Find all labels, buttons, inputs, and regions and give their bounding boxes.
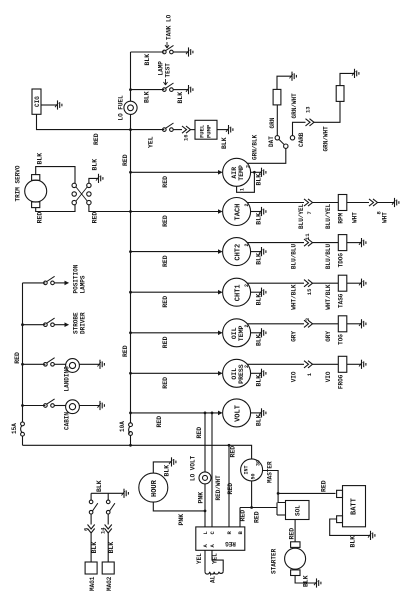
svg-text:FUEL: FUEL [199,124,206,138]
svg-text:TOG: TOG [338,334,345,345]
svg-text:WHT/BLK: WHT/BLK [325,284,332,310]
wire VIO [313,363,339,365]
connector 14 [105,525,112,534]
wire PNK to REG L [204,484,206,527]
connector 3 [304,320,313,327]
wire sender BLU/YEL [247,202,304,204]
wire gauge ground BLK [251,291,261,293]
breaker 15A [21,422,25,426]
ground gauge [259,288,266,297]
svg-text:LO FUEL: LO FUEL [118,95,125,121]
FUEL PUMP box [195,120,217,139]
switch mag MAG1 [90,493,92,500]
gauge CHT2 [223,238,251,266]
connector 13 [306,119,315,126]
svg-text:RED: RED [289,528,296,540]
wire RED to BATT [278,492,335,494]
svg-text:BLU/BLU: BLU/BLU [325,243,332,269]
switch position lamps [44,281,48,285]
wire BLK [90,533,92,562]
magneto MAG2 [102,562,114,574]
svg-text:VOLT: VOLT [235,405,243,422]
svg-text:MAG1: MAG1 [89,576,96,591]
svg-text:RED: RED [122,154,129,166]
wire GRN to resistor [276,105,278,136]
wire pin1 loop [237,172,255,192]
svg-text:CARB: CARB [298,132,305,147]
ground sender [359,279,366,288]
ground sender [359,319,366,328]
svg-text:BLK: BLK [144,54,151,66]
wire trim ground BLK [89,178,98,183]
lamp CABIN [66,400,80,414]
wire GRY [313,323,339,325]
wire sender VIO [247,363,304,365]
svg-text:TDOG: TDOG [338,253,345,268]
ground CARB resistor [352,69,359,78]
sender box TDOG [338,235,347,251]
wire CARB GRN/WHT [293,122,306,135]
svg-text:SOL: SOL [295,505,302,516]
svg-text:YEL: YEL [212,553,219,564]
wire branch RED to gauge [131,332,222,334]
regulator REG [196,527,245,550]
svg-text:BLK: BLK [221,137,228,149]
wire to connector 6 [90,514,92,525]
switch cabin [44,404,48,408]
ground gauge [259,369,266,378]
wire branch RED to gauge [131,251,222,253]
wire sender WHT/BLK [247,282,304,284]
wire resistor to ground [340,73,354,85]
wire feed bottom [23,445,252,459]
gauge VOLT [223,399,251,427]
svg-text:LO VOLT: LO VOLT [190,455,197,481]
ground hour meter [169,457,176,466]
wire to connector 14 [107,514,109,525]
switch strobe driver [44,323,48,327]
wire position lamps branch [23,282,46,284]
svg-text:PNK: PNK [178,514,185,526]
connector 16 [182,126,191,133]
ground tank-lo [186,47,193,56]
wire branch RED to gauge [131,171,222,173]
svg-text:BLU/BLU: BLU/BLU [291,243,298,269]
svg-text:6: 6 [83,528,90,531]
wire tank-lo branch [131,51,165,53]
svg-text:DRIVER: DRIVER [80,312,87,334]
switch fuel pump [163,128,167,132]
svg-text:BLK: BLK [37,153,44,165]
svg-text:RED: RED [162,255,169,267]
wire branch RED to gauge [131,291,222,293]
svg-text:GRY: GRY [325,331,332,342]
ground sender [359,238,366,247]
svg-text:GRY: GRY [291,331,298,342]
wire BLU/YEL [313,202,339,204]
ground starter [314,578,321,587]
svg-text:RPM: RPM [338,212,345,223]
svg-text:BLU/YEL: BLU/YEL [298,203,305,229]
ground tach sender [392,198,399,207]
wire REG B [239,508,241,527]
battery BATT [343,486,366,527]
wire to ground [347,323,361,325]
svg-text:BLK: BLK [108,542,115,554]
svg-text:BATT: BATT [351,498,359,515]
wire main RED bus (vertical) [130,52,132,101]
wire lamp-test branch [131,89,165,91]
svg-text:10A: 10A [119,421,126,432]
wire resistor to ground [277,76,292,89]
svg-text:OIL: OIL [231,368,238,380]
svg-text:WHT: WHT [382,212,389,223]
alternator coil ALT [205,572,223,574]
svg-text:VIO: VIO [325,371,332,382]
svg-text:15A: 15A [11,423,18,434]
wire BATT BLK ground [330,519,370,535]
svg-text:2: 2 [244,365,250,368]
switch mag MAG2 [107,493,109,500]
svg-text:TEST: TEST [165,63,172,78]
wire SOL to starter RED [294,520,296,542]
svg-text:BLK: BLK [303,575,310,587]
wire gauge ground BLK [251,332,261,334]
wire gauge ground BLK [251,372,261,374]
sender box TOG [338,316,347,332]
gauge OIL/TEMP [223,319,251,347]
connector 7 [304,199,313,206]
svg-text:11: 11 [304,233,311,240]
wire BLU/BLU [313,242,339,244]
svg-text:13: 13 [305,106,312,113]
svg-text:TRIM SERVO: TRIM SERVO [15,165,22,201]
CIG socket [32,89,41,114]
wire RED/WHT to REG C [211,413,213,527]
svg-text:50: 50 [251,473,257,479]
svg-text:TACH: TACH [235,204,243,221]
svg-text:RED: RED [92,212,99,224]
svg-text:STROBE: STROBE [73,312,80,334]
solenoid SOL [286,501,310,520]
gauge TACH [223,198,251,226]
lamp LO FUEL [124,101,137,114]
breaker 10A [129,423,133,427]
wire fuel pump ground [217,129,228,131]
svg-text:BLK: BLK [144,91,151,103]
svg-text:STARTER: STARTER [271,548,278,574]
ground gauge [259,408,266,417]
sender box FROG [338,356,347,372]
battery terminal + [337,490,343,497]
svg-text:DAT: DAT [268,136,275,147]
svg-text:ALT: ALT [210,572,217,583]
hour meter HOUR [139,473,168,502]
svg-text:BLK: BLK [91,542,98,554]
wire to ground [347,282,361,284]
svg-text:MASTER: MASTER [267,461,274,483]
switch LAMP TEST [163,88,167,92]
sender box TASG [338,275,347,291]
svg-text:RED: RED [93,133,100,145]
ground DAT resistor [290,72,297,81]
svg-text:WHT: WHT [352,212,359,223]
motor TRIM SERVO [25,180,47,202]
svg-text:RED: RED [162,336,169,348]
wire trim feed RED [89,205,131,212]
svg-text:1: 1 [240,188,246,191]
ground gauge [259,247,266,256]
wire gauge ground BLK [251,171,261,173]
svg-text:RED: RED [254,511,261,523]
svg-text:RED: RED [227,483,234,495]
connector 11 [304,239,313,246]
svg-text:2: 2 [244,243,250,246]
svg-text:BLU/YEL: BLU/YEL [325,203,332,229]
ground sender [359,360,366,369]
lamp LO VOLT [199,472,211,484]
svg-text:LAMP: LAMP [158,61,165,76]
battery terminal - [337,516,343,523]
svg-text:RED: RED [196,427,203,439]
wire master 30 to batt [263,471,286,503]
wire GRN/BLK to selector [247,148,286,163]
wire branch RED to gauge [131,211,222,213]
node bus junctions [129,88,132,91]
svg-text:7: 7 [306,211,313,214]
wire RED to LO VOLT lamp [204,413,206,472]
ground landing [98,360,105,369]
motor STARTER [285,548,306,569]
svg-text:LAMPS: LAMPS [80,275,87,293]
svg-text:YEL: YEL [196,553,203,564]
svg-text:YEL: YEL [148,136,155,148]
wire to fuel pump [191,129,196,131]
svg-text:BLK: BLK [92,159,99,171]
svg-text:GRN/WHT: GRN/WHT [291,93,298,119]
wire BLK [107,533,109,562]
wire hour PNK [153,502,205,511]
ground gauge [259,207,266,216]
ground battery [368,531,375,540]
svg-text:RED: RED [230,446,237,458]
wire GRN/WHT to resistor [314,101,340,122]
svg-text:CHT1: CHT1 [235,284,243,301]
wire master bottom [251,481,253,508]
wire hour BLK ground [153,462,171,473]
wire RED to REG R [228,445,230,527]
wire REG A YEL [204,550,206,572]
svg-text:BLK: BLK [164,465,171,477]
wire branch RED to gauge [131,372,222,374]
svg-text:BLK: BLK [177,92,184,104]
switch DAT/CARB selector [284,144,288,148]
wire fuel pump branch [131,129,165,131]
gauge OIL/PRESS [223,359,251,387]
svg-text:TANK LO: TANK LO [166,14,173,40]
svg-text:HOUR: HOUR [151,479,159,497]
wire to ground [347,363,361,365]
wire to ground [347,242,361,244]
wire CIG feed RED [37,114,131,129]
connector 1 [304,361,313,368]
switch landing [44,363,48,367]
svg-text:INT: INT [244,465,250,474]
wire gauge ground BLK [251,211,261,213]
resistor CARB [336,86,344,102]
svg-text:WHT/BLK: WHT/BLK [291,284,298,310]
sender box RPM [338,195,347,211]
svg-text:OIL: OIL [231,327,238,339]
ground gauge [259,328,266,337]
svg-text:GRN/WHT: GRN/WHT [323,126,330,152]
svg-text:CABIN: CABIN [64,412,71,430]
svg-text:RED: RED [240,510,247,522]
wire landing ground [79,363,99,365]
svg-text:TASG: TASG [338,293,345,308]
svg-text:RED: RED [14,352,21,364]
svg-text:MAG2: MAG2 [106,576,113,591]
wire sender GRY [247,323,304,325]
svg-text:AIR: AIR [231,167,238,179]
wire CIG ground [41,104,57,106]
svg-text:RED/WHT: RED/WHT [215,475,222,501]
svg-text:TEMP: TEMP [238,165,245,181]
ground air temp [259,168,266,177]
wire branch RED to volt gauge [131,412,222,414]
svg-text:RED: RED [321,480,328,492]
wire to SOL and REG B [240,507,277,509]
trim reversing connector [72,183,76,187]
svg-text:RED: RED [162,176,169,188]
wire mag common BLK [91,492,123,494]
svg-text:REG: REG [225,540,236,547]
gauge CHT1 [223,278,251,306]
svg-text:2: 2 [244,284,250,287]
svg-text:BLK: BLK [350,536,357,548]
wire landing branch [23,363,46,365]
ground mags [122,489,129,498]
svg-text:CIG: CIG [34,96,41,107]
switch TANK LO [163,50,167,54]
svg-text:PNK: PNK [198,492,205,504]
wire REG A2 YEL [212,550,223,572]
svg-text:14: 14 [100,527,107,534]
resistor DAT [273,89,281,105]
gauge AIR/TEMP [223,158,251,186]
svg-text:RED: RED [162,377,169,389]
switch MASTER [241,459,263,481]
svg-text:RED: RED [122,345,129,357]
connector 6 [88,525,95,534]
wire sender BLU/BLU [247,242,304,244]
connector 8 [369,199,378,206]
wire gauge ground BLK [251,251,261,253]
wire gauge ground BLK [251,412,261,414]
svg-text:30: 30 [256,460,262,466]
ground cabin [98,401,105,410]
svg-text:BLK: BLK [96,480,103,492]
ground trim [96,174,103,183]
svg-text:RED: RED [162,296,169,308]
svg-text:16: 16 [183,134,190,141]
svg-text:CHT2: CHT2 [235,244,243,261]
wire WHT/BLK [313,282,339,284]
connector 15 [304,280,313,287]
svg-text:2: 2 [246,165,252,168]
wire starter BLK ground [295,576,316,584]
svg-text:VIO: VIO [291,371,298,382]
svg-text:FROG: FROG [338,374,345,389]
svg-text:POSITION: POSITION [73,264,80,293]
wire cabin ground [79,405,99,407]
svg-text:15: 15 [306,288,313,295]
svg-text:PUMP: PUMP [206,124,213,138]
ground lamp-test [186,85,193,94]
svg-text:RED: RED [162,215,169,227]
wire WHT to ground [378,202,395,204]
magneto MAG1 [85,562,97,574]
wire trim RED [36,205,75,212]
svg-text:GRN/BLK: GRN/BLK [252,134,259,160]
svg-text:2: 2 [244,324,250,327]
ground fuel pump [226,125,233,134]
wire left RED rail [22,283,24,422]
svg-text:RED: RED [156,416,163,428]
wire strobe branch [23,324,46,326]
svg-text:RED: RED [37,212,44,224]
wire cabin branch [23,405,46,407]
wire trim BLK [36,167,75,184]
wire sol coil bracket [276,503,278,516]
svg-text:2: 2 [244,203,250,206]
svg-text:GRN: GRN [269,117,276,128]
ground CIG [55,100,62,109]
lamp LANDING [66,359,80,373]
svg-text:LANDING: LANDING [64,366,71,392]
wire WHT [347,202,369,204]
